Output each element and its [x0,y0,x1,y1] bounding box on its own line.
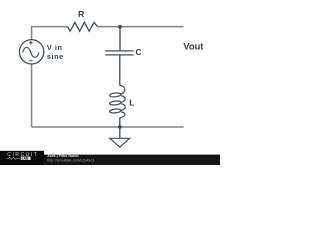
capacitor C1 bottom plate [105,54,133,56]
inductor L1 coil [109,85,125,118]
capacitor C1 top plate [105,50,133,52]
svg-text:LAB: LAB [22,156,29,160]
watermark logo box [0,151,44,165]
logo LAB badge [21,157,31,160]
voltage source plus sign [29,41,32,44]
voltage source minus sign [29,60,32,62]
ground symbol triangle [110,138,130,147]
wire top-right segment (resistor to Vout terminal) [98,26,184,28]
svg-text:R: R [78,9,84,19]
resistor R1 zigzag [68,22,98,31]
wire middle branch upper (node to capacitor) [119,27,121,51]
node junction dot top [118,25,122,29]
logo squiggle [7,157,20,159]
wire top-left segment (source to resistor) [32,27,68,40]
svg-text:C: C [135,47,141,57]
svg-text:http://circuitlab.com/c/jx43c3: http://circuitlab.com/c/jx43c3 [47,158,94,162]
svg-text:V in: V in [47,43,63,52]
voltage source V1 circle [19,40,43,64]
wire capacitor to inductor [119,55,121,86]
svg-text:sine: sine [47,52,64,61]
watermark strip [0,155,220,165]
svg-text:L: L [129,97,134,107]
node junction dot bottom [118,125,122,129]
svg-text:Vout: Vout [183,41,203,52]
wire inductor to bottom rail [119,118,121,127]
ground stub wire [119,127,121,138]
wire left vertical (source to bottom rail) [31,64,33,127]
wire bottom rail [32,126,184,128]
voltage source sine wave [23,47,39,57]
